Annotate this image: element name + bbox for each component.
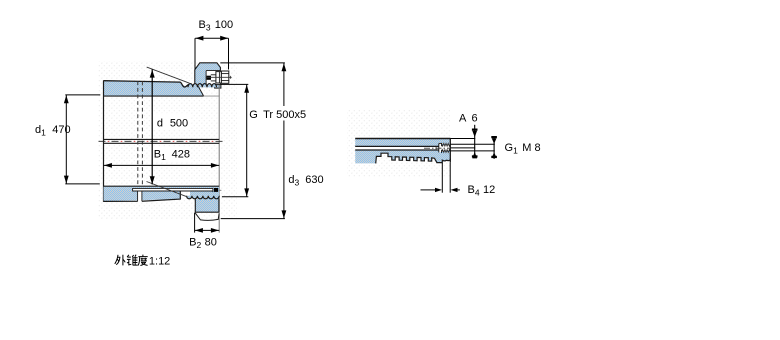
duct centre line with cross [424, 147, 451, 149]
threaded hole G1 white [439, 143, 451, 152]
lock nut lower outline [195, 198, 219, 212]
locking screw pocket (white) [207, 71, 221, 84]
svg-text:GTr 500x5: GTr 500x5 [249, 109, 306, 121]
thread teeth of threaded hole, upper flank [442, 143, 451, 146]
meshed thread line (lower) [187, 196, 220, 199]
centre axis line (dash-dot) [99, 140, 224, 142]
svg-text:d500: d500 [157, 117, 188, 129]
dimension B2 80 [194, 213, 196, 233]
dimension B3 100 [195, 37, 228, 39]
meshed thread between sleeve and nut (upper) [188, 84, 217, 88]
duct upper wall line (detail) [355, 145, 439, 147]
lock nut HM, upper section [195, 63, 221, 88]
locking screw shank [218, 72, 220, 83]
label background boxes [153, 113, 190, 129]
sleeve outer surface line (detail) [355, 138, 450, 140]
svg-text:B3100: B3100 [199, 19, 234, 33]
sleeve right end face / B2 extension line [218, 85, 220, 233]
lower thread wave fill [187, 196, 220, 199]
lock nut spherical chamfer outline [195, 212, 219, 220]
sleeve thread profile (detail) [376, 153, 451, 163]
sleeve left end face [103, 80, 105, 201]
sleeve end face (detail) [449, 138, 451, 163]
oil duct white channel (detail view) [355, 146, 439, 150]
note: taper 1:12 (external taper) [115, 255, 148, 266]
dimension G Tr 500x5 [221, 83, 248, 85]
duct walls [133, 188, 213, 201]
hidden oil duct projection (dashed lines) [137, 81, 139, 186]
dimension A 6 [474, 125, 476, 158]
sleeve band below oil duct with thread (detail view) [355, 150, 450, 163]
radial duct slot through lower band [138, 188, 142, 201]
taper indicator line (upper) [147, 67, 190, 83]
svg-text:1:12: 1:12 [149, 256, 170, 268]
locking screw hex head [221, 71, 228, 83]
sleeve lower cross-section band: strip above duct [104, 186, 220, 191]
dimension d1 470 [65, 94, 100, 96]
locking screw axis line with end cross [207, 76, 232, 78]
sleeve upper cross-section band [104, 81, 204, 96]
sleeve outer band above oil duct (detail view) [355, 139, 450, 146]
svg-text:B1428: B1428 [154, 149, 190, 163]
oil duct (white channel) in lower band [133, 188, 213, 191]
locking screw washer [216, 72, 222, 83]
svg-text:d3630: d3630 [288, 174, 323, 188]
lock nut outline [195, 63, 221, 86]
sleeve bore line (lower) [104, 185, 220, 187]
dimension G1 M8 [493, 136, 495, 159]
dimension d3 630 line [283, 63, 285, 219]
taper indicator line (lower) [147, 182, 188, 197]
thread teeth of threaded hole, lower flank [442, 150, 451, 153]
inner sleeve double lines at axis [104, 138, 220, 140]
duct lower wall line (detail) [355, 149, 439, 151]
duct end detail [212, 188, 214, 192]
threaded hole bottom face [438, 143, 440, 152]
sleeve lower outer taper edge [104, 191, 181, 201]
locking screw point (solid) [207, 76, 211, 80]
dimension B4 12 [441, 163, 443, 193]
sleeve bore line (upper) [104, 95, 204, 97]
extension lines for A and G1 dimensions [450, 138, 475, 140]
lock nut bottom-right step block [215, 85, 221, 89]
sleeve lower band: block between duct and thread, right part [190, 191, 219, 196]
gray shaded background zone, right figure [347, 110, 451, 177]
svg-text:G1M 8: G1M 8 [505, 142, 541, 156]
dimension d 500 [151, 69, 153, 184]
sleeve upper outer taper edge with thread runout groove [104, 81, 189, 87]
dimension B1 428 [104, 164, 220, 166]
sleeve end chamfer (upper) [198, 86, 203, 96]
lock nut lower section [195, 196, 219, 212]
svg-text:d1470: d1470 [35, 124, 71, 138]
dimension d3 extension lines [220, 62, 285, 64]
sleeve lower band: left block below duct [104, 191, 181, 201]
gray shaded background zone, left figure [98, 61, 237, 220]
